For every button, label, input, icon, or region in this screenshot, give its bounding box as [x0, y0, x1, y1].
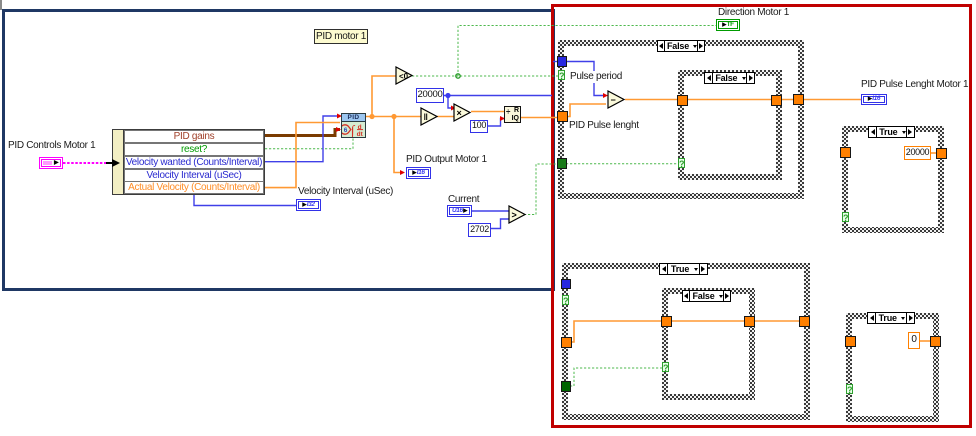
indicator: I32 Velocity Interval: [296, 199, 321, 211]
wire: orange quotient IQ output to case A tunnel: [521, 117, 558, 119]
node: subtract: [607, 90, 627, 110]
label: PID Pulse Lenght Motor 1: [861, 80, 968, 90]
svg-text:∫: ∫: [350, 124, 356, 137]
case D selector "True": [659, 263, 708, 275]
svg-text:>: >: [512, 210, 517, 220]
tunnel: case E selector terminal: [662, 362, 669, 372]
junction dot green: [456, 74, 460, 78]
wire: blue Velocity Interval to I32: [194, 195, 297, 206]
wire: orange multiply to quotient: [471, 111, 504, 113]
wire: blue 20000 to case (clipped at frame): [444, 95, 552, 97]
tunnel: orange left on case E: [662, 317, 671, 326]
wire: blue pulse period inside case A: [566, 62, 606, 96]
case F selector "True": [867, 312, 915, 324]
wire: blue Current to greater-than: [472, 210, 509, 212]
node: absolute value: [420, 107, 440, 127]
coercion arrow red: quotient input: [500, 116, 505, 121]
wire: orange branch down to PID Output indicator: [394, 117, 403, 173]
wire: brown PID gains cluster: [265, 130, 340, 136]
tunnel: orange left on case F: [846, 337, 855, 346]
wire: blue branch down to multiply: [448, 96, 452, 109]
case structure C: small case (True frame) middle-right: [842, 126, 944, 233]
node: Unbundle By Name: [112, 129, 265, 195]
case B selector "False": [704, 72, 755, 84]
label: PID motor 1: [314, 29, 368, 44]
wire: orange abs to multiply: [437, 116, 454, 118]
wire: orange 0 to case F right tunnel: [920, 340, 931, 342]
coercion arrow red: PID brown input: [336, 127, 341, 132]
tunnel: green solid on case A: [558, 159, 566, 168]
wire: orange PID output main: [366, 116, 421, 118]
wire: blue stub into pulse period tunnel: [553, 61, 559, 63]
junction dot blue: [445, 93, 450, 98]
tunnel: blue on case D: [562, 280, 570, 288]
wire: orange through case D and E: [566, 321, 801, 342]
label: Current: [448, 195, 479, 205]
tunnel: case A selector terminal: [558, 70, 565, 80]
coercion arrow red: PID output indicator: [400, 170, 405, 175]
wire: orange Actual Velocity: [265, 123, 340, 188]
wire: green dashed reset?: [265, 138, 353, 149]
coercion arrow red: multiply input: [451, 106, 456, 111]
wire: green dashed less-than-0 output to selector: [412, 75, 558, 77]
wire: blue Velocity wanted: [265, 116, 340, 162]
case structure A: Direction case (False frame), top-right: [558, 40, 804, 199]
tunnel: orange PID pulse lenght on case A: [558, 112, 567, 121]
svg-text:dt: dt: [357, 131, 364, 137]
tunnel: orange right on case C: [937, 149, 946, 158]
tunnel: case B selector terminal: [678, 158, 685, 168]
junction dot orange 1: [369, 114, 374, 119]
label: PID Controls Motor 1: [8, 141, 95, 151]
label: Direction Motor 1: [718, 8, 789, 18]
constant: 0 (orange, case F): [908, 332, 920, 349]
junction dot orange 2: [391, 114, 396, 119]
wire: blue 100 to quotient: [488, 119, 504, 127]
wire: green dashed greater-than output to case A green tunnel: [524, 164, 559, 215]
tunnel: case F selector terminal: [846, 384, 853, 394]
case A selector "False": [657, 40, 705, 52]
wire: black arrowhead overlay into unbundle: [112, 159, 120, 167]
frame: right VI block diagram (dark red): [551, 4, 972, 428]
tunnel: orange in on case B: [678, 96, 687, 105]
svg-text:×: ×: [457, 108, 462, 118]
wire: green dashed case A tunnel to case B selector: [566, 163, 678, 165]
indicator: I16 PID Output: [406, 167, 431, 179]
constant: 2702: [468, 223, 491, 237]
tunnel: orange left on case C: [841, 148, 850, 157]
constant: 100: [470, 120, 488, 133]
label: Pulse period: [569, 71, 623, 83]
wire: blue 2702 to greater-than: [491, 219, 509, 229]
label: PID Output Motor 1: [406, 155, 487, 165]
tunnel: orange out on case B: [772, 96, 781, 105]
wire: orange branch up to less-than-0: [372, 76, 397, 117]
tunnel: case C selector terminal: [842, 212, 849, 222]
indicator: TF Direction Motor 1: [716, 19, 740, 31]
wire: orange subtract output through case B to indicator: [625, 99, 861, 101]
tunnel: orange right on case F: [931, 337, 940, 346]
wire: black arrow into unbundle: [106, 159, 120, 168]
control: U16 Current: [447, 205, 472, 217]
node: less than 0: [395, 66, 415, 86]
tunnel: orange right on case E: [745, 317, 754, 326]
case structure D: Direction case (True frame), bottom: [562, 263, 810, 420]
tunnel: dark green on case D: [562, 382, 570, 391]
wire: orange 20000 to case C right tunnel: [930, 152, 938, 154]
node: PID.vi: [341, 113, 366, 138]
svg-text:6: 6: [344, 127, 348, 134]
node: quotient and remainder: [504, 106, 521, 123]
wire: orange PID pulse lenght inside case A: [566, 104, 606, 117]
wire: green dashed to case E selector: [566, 368, 662, 386]
node: greater than: [508, 205, 528, 225]
case structure B: nested case (False frame) inside A: [678, 70, 782, 180]
tunnel: orange right on case D: [800, 317, 809, 326]
indicator: I16 PID Pulse Lenght: [861, 94, 887, 105]
coercion arrow red: PID blue input: [337, 114, 342, 119]
wire: pink dashed cluster wire PID Controls: [63, 162, 106, 164]
label: PID Pulse lenght: [568, 120, 640, 132]
case structure E: nested case (False frame) inside D: [662, 288, 755, 400]
constant: 20000 (orange, case C): [904, 146, 931, 160]
node: multiply: [453, 103, 473, 123]
coercion arrow red: subtract input: [603, 93, 608, 98]
tunnel: blue pulse period on case A: [558, 57, 566, 66]
svg-text:−: −: [611, 95, 616, 105]
svg-text:‖: ‖: [424, 112, 428, 122]
control: PID Controls cluster terminal (pink): [39, 157, 63, 169]
svg-text:<0: <0: [399, 72, 409, 81]
case structure F: small case (True frame), bottom-right: [846, 313, 939, 422]
frame: left VI block diagram (navy): [2, 9, 555, 291]
window edge tick: [0, 0, 2, 10]
label: Velocity Interval (uSec): [298, 187, 393, 197]
case C selector "True": [868, 126, 915, 138]
tunnel: orange left on case D: [562, 338, 571, 347]
constant: 20000: [416, 88, 444, 103]
wire: green dashed up to Direction Motor TF: [458, 26, 716, 77]
case E selector "False": [682, 290, 731, 302]
tunnel: orange out on case A right: [794, 95, 803, 104]
tunnel: case D selector terminal: [562, 295, 569, 305]
